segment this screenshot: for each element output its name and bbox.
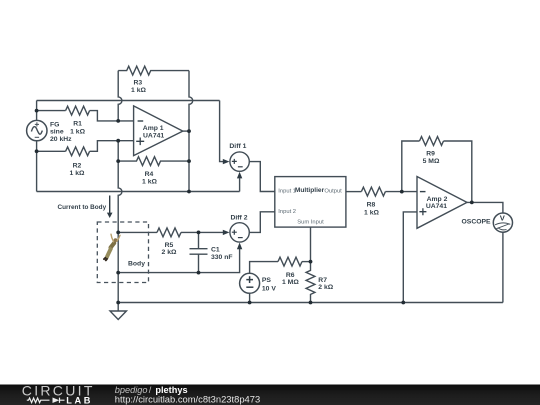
svg-text:Amp 1: Amp 1 [143,125,164,132]
wire FG- terminal drop [36,141,38,192]
wire Amp1 output stub [183,130,189,132]
wire drop to Diff1 plus input [220,101,224,162]
resistor R1 [66,106,90,115]
svg-text:Body: Body [128,261,145,268]
resistor R4 [118,157,189,166]
wire R3 left leg hopping top rail [118,71,122,121]
wire body node to R5 [118,231,157,233]
wire R9 right leg to Amp2 output [444,141,472,202]
svg-text:UA741: UA741 [426,203,447,210]
wire R3 right leg hopping top rail [189,71,193,132]
junction Amp2 output [470,201,474,205]
wire Amp2 non-inverting input to ground rail [403,212,417,303]
resistor R8 [361,187,385,196]
logo resistor-diode squiggle [27,398,65,403]
junction Amp2 inverting input node [400,190,404,194]
junction PS bottom [248,301,252,305]
svg-text:R9: R9 [426,151,435,158]
svg-text:Current to Body: Current to Body [58,204,107,211]
junction R7 bottom [309,301,313,305]
wire Diff1 output to multiplier input 1 [249,162,275,192]
svg-text:PS: PS [262,277,272,284]
wire node B to R2 [37,150,66,152]
wire R1 to Amp1 inverting input [90,111,134,121]
wire bottom-left rail [37,191,240,193]
wire PS+ to R6 [250,262,278,274]
svg-text:FG: FG [50,121,59,128]
svg-text:Output: Output [324,189,342,195]
resistor R9 [420,137,444,146]
wire plus node down hopping bottom rail into body [118,141,122,233]
wire top rail [37,100,220,102]
wire node A to R1 [37,110,66,112]
op-amp U1 Amp 1 [134,106,183,156]
arrowhead into Diff2 plus input [223,230,230,235]
junction C1 top [197,231,201,235]
junction output node to bottom rail [187,190,191,194]
op-amp U2 Amp 2 [417,177,467,229]
junction R4 left [116,159,120,163]
junction FG+ and R1 [35,109,39,113]
svg-text:1 kΩ: 1 kΩ [364,210,379,217]
svg-text:R5: R5 [165,242,174,249]
voltmeter OSCOPE [462,213,513,232]
svg-text:1 kΩ: 1 kΩ [70,128,85,135]
capacitor C1 [190,232,208,272]
svg-text:Sum Input: Sum Input [297,219,324,225]
svg-text:Input 2: Input 2 [278,209,296,215]
footer bar [0,385,540,405]
wire multiplier sum input drop [310,227,312,262]
junction R4 right [187,159,191,163]
summer Diff 1 [229,143,249,171]
junction C1 bottom [197,271,201,275]
wire riser to Diff1 minus input [239,178,241,191]
junction Amp1 output [187,129,191,133]
wire Diff2 output to multiplier input 2 [249,212,275,233]
resistor R7 [306,262,315,303]
svg-text:Input 1: Input 1 [278,189,296,195]
arrowhead into Diff2 minus input [237,243,242,250]
resistor R3 [118,66,189,75]
junction Amp2 plus rail [401,301,405,305]
junction body current node [116,231,120,235]
junction sum node [309,260,313,264]
svg-text:2 kΩ: 2 kΩ [162,249,177,256]
svg-text:R3: R3 [133,79,142,86]
resistor R5 [157,228,181,237]
svg-text:OSCOPE: OSCOPE [462,219,492,226]
svg-text:http://circuitlab.com/c8t3n23t: http://circuitlab.com/c8t3n23t8p473 [115,394,260,405]
svg-text:20 kHz: 20 kHz [50,136,72,143]
wire R2 to Amp1 non-inverting input [90,141,134,152]
junction body bottom [116,271,120,275]
ground [110,303,126,320]
svg-text:UA741: UA741 [143,133,164,140]
body dashed box [97,222,148,283]
svg-text:R2: R2 [73,162,82,169]
junction Amp1 non-inverting input node [116,139,120,143]
svg-text:sine: sine [50,129,64,136]
svg-text:5 MΩ: 5 MΩ [423,158,440,165]
svg-text:R1: R1 [73,121,82,128]
wire PS- to ground rail [249,293,251,302]
arrowhead into Diff1 minus input [237,172,242,179]
arrowhead into Diff1 plus input [223,159,230,164]
resistor R6 [278,257,302,266]
svg-text:330 nF: 330 nF [211,254,233,261]
svg-text:1 MΩ: 1 MΩ [282,279,299,286]
junction ground rail left [116,301,120,305]
wire ground rail [118,302,503,304]
svg-text:Amp 2: Amp 2 [427,196,448,203]
svg-text:R8: R8 [367,201,376,208]
svg-text:R4: R4 [145,171,154,178]
wire R9 left leg [402,141,420,192]
svg-text:1 kΩ: 1 kΩ [142,178,157,185]
wire Amp2 output to oscope [467,202,503,213]
wire body bottom to Diff2 minus input [118,249,239,273]
voltage source PS [240,273,277,293]
svg-text:R7: R7 [318,277,327,284]
svg-text:Diff 1: Diff 1 [229,143,246,150]
svg-text:10 V: 10 V [262,285,276,292]
wire body node down to ground rail [117,232,119,302]
wire R5 to Diff2 plus input [181,231,223,233]
junction FG- and R2 [35,149,39,153]
annotation arrow current to body [58,196,113,219]
summer Diff 2 [230,214,249,242]
svg-text:R6: R6 [286,272,295,279]
svg-text:Multiplier: Multiplier [295,187,325,194]
svg-text:1 kΩ: 1 kΩ [70,170,85,177]
svg-text:Diff 2: Diff 2 [231,214,248,221]
svg-text:2 kΩ: 2 kΩ [318,284,333,291]
resistor R2 [66,147,90,156]
wire Amp1 output node vertical [188,131,190,191]
person figure [104,234,120,260]
wire R8 to Amp2 inverting input [385,191,417,193]
multiplier block U3 [275,177,346,228]
svg-text:LAB: LAB [66,396,93,405]
function generator FG [27,120,47,140]
wire FG+ terminal to top rail [36,101,38,121]
junction Amp1 inverting input node [116,119,120,123]
wire multiplier output to R8 [346,191,362,193]
wire oscope bottom riser [502,232,504,302]
svg-text:1 kΩ: 1 kΩ [131,87,146,94]
svg-text:C1: C1 [211,247,220,254]
wire R6 to sum node [302,261,311,263]
